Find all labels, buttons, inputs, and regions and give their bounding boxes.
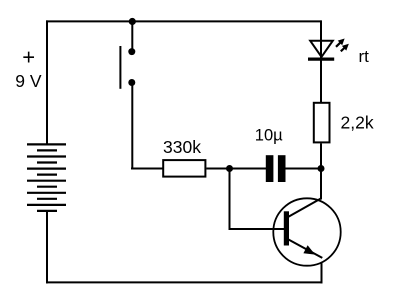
svg-text:9 V: 9 V: [15, 71, 42, 91]
transistor Q1 collector line: [288, 198, 321, 217]
capacitor C1 10u: [266, 155, 286, 182]
switch S1 upper contact: [128, 48, 135, 55]
svg-text:+: +: [22, 45, 35, 70]
wire top junction to switch upper contact: [131, 22, 133, 53]
transistor Q1 circle: [273, 198, 340, 265]
svg-text:2,2k: 2,2k: [341, 113, 374, 133]
wire node A down to base: [229, 169, 285, 231]
svg-text:330k: 330k: [163, 137, 201, 157]
wire LED to R 2,2k: [320, 60, 322, 102]
wire R 2,2k to node B to collector: [320, 143, 322, 199]
wire left from battery - to bottom rail: [46, 211, 48, 284]
svg-text:rt: rt: [359, 47, 370, 66]
svg-text:10µ: 10µ: [255, 126, 283, 144]
switch S1 lower contact: [128, 79, 135, 86]
wire R 330k to node A: [206, 168, 266, 170]
battery B1 (6 cells): [27, 144, 66, 211]
switch S1 lever: [119, 46, 121, 89]
LED D1 triangle: [308, 41, 334, 59]
label 330k: [163, 137, 201, 157]
resistor 330k: [163, 160, 205, 177]
wire switch to corner and to R 330k: [131, 83, 163, 170]
node A junction dot: [226, 165, 233, 172]
wire bottom rail: [46, 281, 323, 283]
node B junction dot: [318, 165, 325, 172]
label rt: [359, 47, 370, 66]
LED light arrows: [334, 36, 351, 53]
label + (battery positive): [22, 45, 35, 70]
transistor Q1 base bar: [284, 211, 289, 245]
node top junction: [129, 18, 136, 25]
wire top rail: [46, 20, 322, 22]
wire C1 to node B: [286, 168, 322, 170]
transistor Q1 emitter line with arrow: [288, 239, 322, 258]
wire top rail corner down through LED anode: [320, 20, 322, 59]
label 10u: [255, 126, 283, 144]
wire left from top rail to battery +: [46, 20, 48, 144]
label 2,2k: [341, 113, 374, 133]
resistor 2,2k: [314, 103, 330, 143]
label 9 V: [15, 71, 42, 91]
wire emitter to bottom rail: [321, 263, 323, 284]
